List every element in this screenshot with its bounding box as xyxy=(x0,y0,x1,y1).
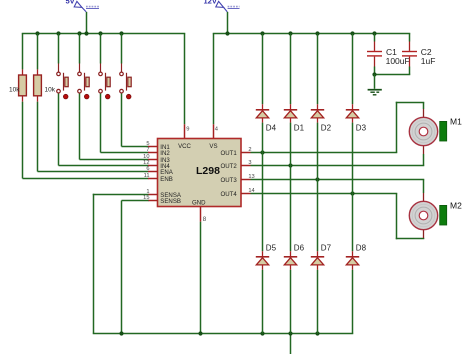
motor M2 xyxy=(409,200,462,229)
wire D8 column xyxy=(352,194,354,334)
svg-text:VS: VS xyxy=(209,143,217,150)
push button 3 xyxy=(99,72,111,99)
diode D1 xyxy=(284,110,305,133)
pin stub IN2 pin 7 xyxy=(146,147,157,153)
svg-text:GND: GND xyxy=(192,199,206,206)
pin stub SENSA pin 1 xyxy=(146,189,157,195)
svg-text:D6: D6 xyxy=(294,244,305,253)
pin stub OUT4 pin 14 xyxy=(241,188,255,194)
pin stub IN3 pin 10 xyxy=(143,154,157,160)
diode D3 xyxy=(346,110,367,133)
pin stub GND pin 8 xyxy=(201,207,207,224)
diode D6 xyxy=(284,244,305,265)
svg-text:ENB: ENB xyxy=(160,176,173,183)
pin number 9 xyxy=(186,126,189,132)
svg-text:VCC: VCC xyxy=(178,143,191,150)
wire C2 column xyxy=(409,34,411,75)
capacitor C1 100uF xyxy=(367,47,410,66)
svg-text:D4: D4 xyxy=(266,124,277,133)
pin stub ENA pin 6 xyxy=(146,166,157,172)
wire button1 column xyxy=(59,34,149,166)
pin stub OUT2 pin 3 xyxy=(241,160,252,166)
IC U1 L298 body xyxy=(158,139,242,207)
svg-text:L298: L298 xyxy=(196,165,220,177)
wire D4 column xyxy=(262,34,264,153)
svg-text:D3: D3 xyxy=(356,124,367,133)
node 12V rail junctions xyxy=(225,31,376,35)
node ground rail junctions xyxy=(119,331,319,335)
svg-text:D2: D2 xyxy=(321,124,332,133)
wire GND pin to ground rail xyxy=(200,222,202,334)
diode D8 xyxy=(346,244,367,265)
wire 5V terminal drop xyxy=(86,12,88,34)
pin number 4 xyxy=(215,126,219,132)
wire D5 column xyxy=(262,153,264,334)
wire 5V bus xyxy=(22,33,186,35)
svg-text:D7: D7 xyxy=(321,244,332,253)
pin stub IN4 pin 12 xyxy=(143,160,157,166)
svg-text:ENA: ENA xyxy=(160,169,173,176)
wire 12V rail xyxy=(213,33,411,35)
push button 2 xyxy=(78,72,90,99)
svg-text:10k: 10k xyxy=(9,87,20,94)
wire OUT4 net to M2 bottom xyxy=(251,194,425,240)
node D2 column junction on OUT3 xyxy=(315,177,319,181)
wire capacitor bottom link xyxy=(374,74,411,76)
resistor R2 10k xyxy=(34,75,56,96)
resistor R1 10k xyxy=(9,75,26,96)
svg-text:D8: D8 xyxy=(356,244,367,253)
svg-text:1uF: 1uF xyxy=(421,56,436,66)
pin stub ENB pin 11 xyxy=(144,173,158,179)
pin stub SENSB pin 15 xyxy=(143,195,157,201)
wire button3 column xyxy=(101,34,149,153)
svg-text:IN2: IN2 xyxy=(160,150,170,157)
svg-text:D1: D1 xyxy=(294,124,305,133)
pin stub OUT1 pin 2 xyxy=(241,147,252,153)
svg-text:6: 6 xyxy=(146,166,149,172)
diode D7 xyxy=(311,244,332,265)
svg-text:100uF: 100uF xyxy=(386,56,410,66)
push button 4 xyxy=(120,72,132,99)
svg-text:OUT1: OUT1 xyxy=(221,150,238,157)
wire D2 column xyxy=(317,34,319,180)
diode D4 xyxy=(256,110,277,133)
wire ground rail xyxy=(93,333,354,335)
svg-text:10k: 10k xyxy=(45,87,56,94)
motor M1 xyxy=(409,116,462,145)
svg-text:OUT3: OUT3 xyxy=(221,177,238,184)
diode D5 xyxy=(256,244,277,265)
wire button4 column xyxy=(122,34,149,147)
svg-text:M1: M1 xyxy=(450,116,462,126)
wire button2 column xyxy=(80,34,149,160)
svg-text:11: 11 xyxy=(144,173,150,179)
svg-text:9: 9 xyxy=(186,126,189,132)
svg-text:D5: D5 xyxy=(266,244,277,253)
capacitor C2 1uF xyxy=(402,47,435,66)
node D3 column junction on OUT4 xyxy=(350,191,354,195)
wire SENSB to ground rail xyxy=(122,201,149,334)
node capacitor bottom junction xyxy=(372,72,376,76)
wire D7 column xyxy=(317,180,319,334)
wire VCC drop xyxy=(184,34,186,139)
node D1 column junction on OUT2 xyxy=(288,163,292,167)
pin stub IN1 pin 5 xyxy=(146,141,157,147)
pin stub OUT3 pin 13 xyxy=(241,174,255,180)
wire R2 column xyxy=(38,34,149,172)
wire D1 column xyxy=(290,34,292,166)
svg-text:8: 8 xyxy=(203,216,207,223)
node 5V bus junctions xyxy=(35,31,123,35)
push button 1 xyxy=(57,72,69,99)
diode D2 xyxy=(311,110,332,133)
wire OUT2 net to M1 bottom xyxy=(251,145,425,165)
svg-text:M2: M2 xyxy=(450,200,462,210)
wire VS drop xyxy=(213,34,215,139)
svg-text:5V: 5V xyxy=(66,0,75,6)
wire to ground symbol xyxy=(374,75,376,89)
wire OUT3 net to M2 top xyxy=(251,180,425,202)
ground xyxy=(368,90,382,95)
svg-text:OUT4: OUT4 xyxy=(221,191,238,198)
wire R1 column xyxy=(23,34,149,179)
node D4 column junction on OUT1 xyxy=(260,150,264,154)
wire 12V terminal drop xyxy=(227,12,229,34)
wire C1 column xyxy=(374,34,376,75)
svg-text:12V: 12V xyxy=(204,0,217,6)
wire SENSA to ground rail xyxy=(93,194,149,334)
wire OUT1 net to M1 top xyxy=(251,102,425,153)
wire ground rail tail xyxy=(290,334,292,354)
power terminal 12V xyxy=(204,0,240,12)
power terminal 5V xyxy=(66,0,100,12)
wire D3 column xyxy=(352,34,354,194)
svg-text:SENSB: SENSB xyxy=(160,198,181,205)
wire D6 column xyxy=(290,166,292,334)
svg-text:7: 7 xyxy=(146,147,149,153)
svg-text:OUT2: OUT2 xyxy=(221,163,238,170)
